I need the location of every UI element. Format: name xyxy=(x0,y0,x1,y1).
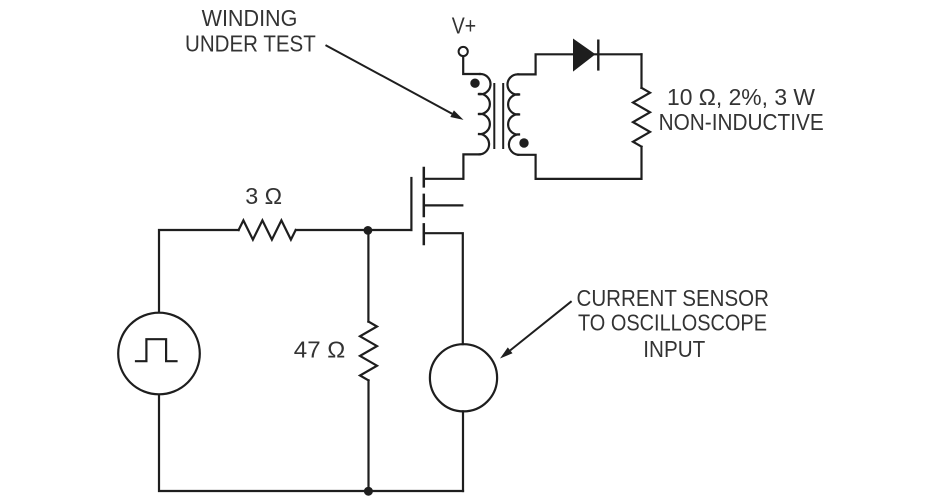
transistor Q1 drain lead xyxy=(424,178,463,180)
leader arrow to current sensor xyxy=(500,301,572,358)
current sensor CT1 circle xyxy=(430,344,497,411)
transistor Q1 channel dashes xyxy=(423,168,426,244)
phase dot secondary xyxy=(519,138,528,147)
wire: primary bottom to drain xyxy=(463,154,479,178)
svg-text:V+: V+ xyxy=(452,13,476,39)
transistor Q1 source lead xyxy=(424,233,463,344)
terminal V+ circle xyxy=(459,47,468,56)
phase dot primary xyxy=(470,79,479,88)
junction node B dot xyxy=(364,487,373,496)
svg-text:UNDER TEST: UNDER TEST xyxy=(185,31,316,57)
pulse generator waveform symbol xyxy=(136,339,177,361)
wire: sensor bottom to bottom rail xyxy=(462,411,464,491)
transistor Q1 gate bar xyxy=(410,178,412,230)
diode D1 xyxy=(574,40,599,71)
svg-text:3 Ω: 3 Ω xyxy=(245,183,282,209)
transformer T1 core lines xyxy=(494,84,503,148)
svg-text:WINDING: WINDING xyxy=(202,5,298,31)
wire: 47 ohm branch top xyxy=(367,230,369,322)
wire: source bottom to bottom rail xyxy=(159,395,463,491)
transformer T1 secondary winding xyxy=(507,74,520,154)
svg-text:TO OSCILLOSCOPE: TO OSCILLOSCOPE xyxy=(578,310,767,336)
wire: V+ to primary top xyxy=(463,56,480,74)
wire: 47 ohm branch bottom xyxy=(367,380,369,491)
label WINDING UNDER TEST xyxy=(185,5,316,57)
svg-text:INPUT: INPUT xyxy=(643,336,705,362)
svg-text:CURRENT SENSOR: CURRENT SENSOR xyxy=(577,285,770,311)
wire: secondary top to diode rail xyxy=(518,54,641,74)
wire: diode rail to resistor top xyxy=(640,54,642,88)
resistor R2 47 ohm zigzag xyxy=(360,322,377,381)
resistor R1 3 ohm zigzag xyxy=(239,220,296,239)
transformer T1 primary winding xyxy=(478,74,491,154)
transistor Q1 body lead xyxy=(424,204,462,206)
leader arrow to winding xyxy=(326,45,464,120)
pulse generator V1 circle xyxy=(118,313,200,395)
wire: left loop top (source top to gate) xyxy=(159,230,411,312)
wire: secondary bottom rail xyxy=(518,147,641,179)
junction node A dot xyxy=(364,226,373,235)
svg-text:47 Ω: 47 Ω xyxy=(294,336,346,362)
svg-text:NON-INDUCTIVE: NON-INDUCTIVE xyxy=(659,109,824,135)
resistor R3 10 ohm zigzag xyxy=(633,88,650,147)
svg-text:10 Ω, 2%, 3 W: 10 Ω, 2%, 3 W xyxy=(667,84,816,110)
